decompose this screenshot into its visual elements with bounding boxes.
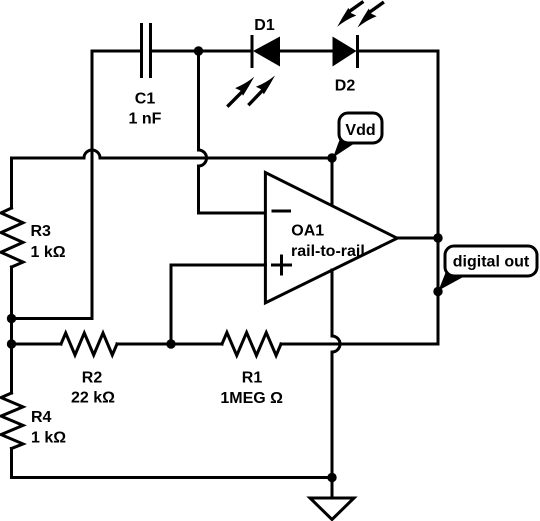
digital out label (453, 254, 530, 271)
wire op-amp output to right rail (397, 237, 438, 240)
R1 label (220, 370, 283, 407)
wire D2 cathode to right rail (358, 50, 439, 53)
svg-text:C1: C1 (135, 91, 156, 108)
wire Vdd rail with hop over x=92 (12, 150, 333, 158)
diode D2 (photodiode, pointing right) (333, 37, 358, 67)
op-amp minus input symbol (273, 210, 290, 213)
node Vdd junction (327, 153, 336, 162)
wire inverting input (vertical with hop over Vdd rail) (199, 51, 266, 213)
svg-text:1 kΩ: 1 kΩ (31, 430, 66, 447)
svg-text:rail-to-rail: rail-to-rail (291, 243, 365, 260)
resistor R3 (1, 208, 23, 267)
svg-text:1MEG Ω: 1MEG Ω (220, 390, 283, 407)
wire non-inverting input (171, 265, 265, 344)
wire left rail (10, 158, 13, 208)
resistor R1 (222, 333, 281, 356)
svg-text:Vdd: Vdd (345, 122, 375, 139)
node output junction (433, 233, 442, 242)
wire left rail R3 to R4 (10, 267, 13, 393)
wire left rail bottom corner to ground node (12, 449, 333, 478)
OA1 label (291, 223, 365, 261)
diode D1 (photodiode, pointing left) (252, 37, 280, 67)
svg-text:1 kΩ: 1 kΩ (31, 244, 66, 261)
svg-text:R1: R1 (242, 370, 263, 387)
R2 label (71, 369, 115, 406)
svg-text:digital out: digital out (453, 254, 530, 271)
Vdd label (345, 122, 375, 139)
C1 value label (129, 91, 162, 128)
D1 light arrow 1 (229, 77, 255, 106)
digital out callout (445, 246, 537, 276)
Vdd callout (339, 113, 382, 143)
wire right rail (437, 51, 440, 344)
wire D1 anode to D2 anode (280, 50, 333, 53)
node left rail / C1 branch (7, 314, 16, 323)
wire C1 right plate to node at x=198.5 (152, 50, 199, 53)
node digital out junction (433, 287, 442, 296)
D2 label (335, 78, 356, 95)
svg-text:R4: R4 (31, 409, 52, 426)
R4 label (31, 409, 66, 447)
capacitor C1 (142, 25, 151, 77)
node Vdd callout tail (333, 139, 355, 158)
wire R2 to R1 (117, 343, 222, 346)
node digital out callout tail (439, 272, 466, 291)
wire R2 left lead (12, 343, 62, 346)
node junction C1/D1 (194, 46, 203, 55)
svg-text:D1: D1 (254, 17, 275, 34)
wire node to D1 cathode (199, 50, 253, 53)
node left rail / R2 (7, 339, 16, 348)
svg-text:R2: R2 (82, 369, 103, 386)
node ground junction (327, 473, 336, 482)
D2 light arrow 2 (358, 3, 383, 28)
node non-inverting junction (166, 339, 175, 348)
op-amp plus input symbol (273, 256, 291, 274)
wire Vdd to op-amp top pin (331, 158, 334, 206)
D2 light arrow 1 (337, 3, 362, 27)
wire ground stub (331, 478, 334, 499)
svg-text:22 kΩ: 22 kΩ (71, 390, 115, 407)
wire op-amp bottom pin down with hop over y=344 (332, 270, 340, 478)
wire top-left from C1 left plate to corner at x=92 (12, 51, 141, 319)
svg-text:OA1: OA1 (291, 223, 324, 240)
ground (310, 498, 354, 520)
svg-text:1 nF: 1 nF (129, 111, 162, 128)
R3 label (31, 223, 66, 261)
op-amp OA1 (265, 173, 397, 303)
wire R1 right lead to right rail (281, 343, 438, 346)
svg-text:R3: R3 (31, 223, 52, 240)
svg-text:D2: D2 (335, 78, 356, 95)
resistor R2 (61, 333, 117, 355)
D1 light arrow 2 (250, 76, 276, 105)
resistor R4 (1, 393, 23, 449)
D1 label (254, 17, 275, 34)
